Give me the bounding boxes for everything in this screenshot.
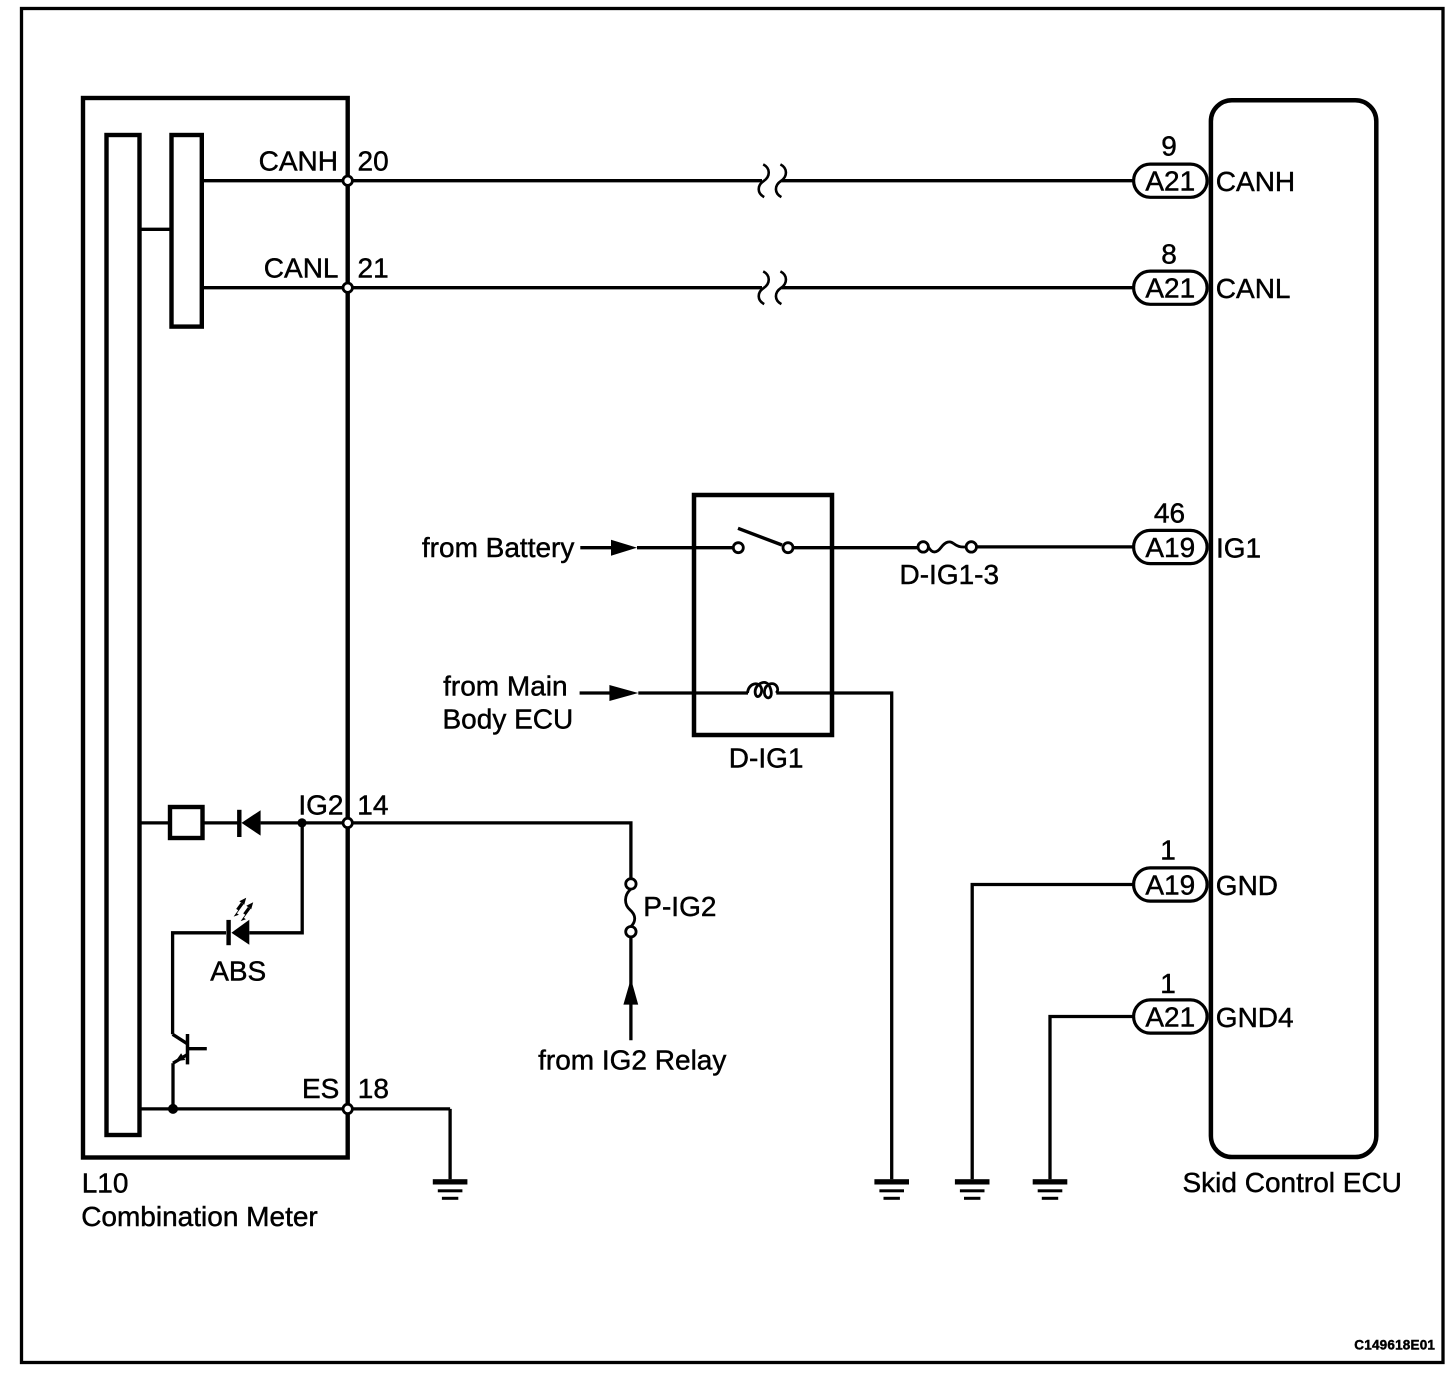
wire battery to relay switch bbox=[637, 546, 733, 549]
svg-text:C149618E01: C149618E01 bbox=[1354, 1337, 1435, 1352]
ABS LED cathode bar bbox=[226, 920, 230, 945]
svg-text:L10: L10 bbox=[82, 1168, 129, 1199]
arrow from Battery bbox=[580, 546, 613, 549]
transistor Q1 base lead bbox=[188, 1047, 207, 1050]
wire link between bars bbox=[140, 228, 172, 231]
connector A21 pin 1 GND4 bbox=[1134, 1000, 1208, 1033]
ground GND bbox=[955, 1179, 990, 1200]
ground GND4 bbox=[1033, 1179, 1068, 1200]
relay coil D-IG1 bbox=[748, 682, 778, 697]
svg-text:from IG2 Relay: from IG2 Relay bbox=[538, 1045, 726, 1076]
diode triangle bbox=[242, 810, 261, 835]
wire ABS LED left lead bbox=[173, 933, 226, 1035]
wire ES bbox=[140, 1107, 451, 1110]
svg-text:GND4: GND4 bbox=[1216, 1002, 1294, 1033]
svg-text:1: 1 bbox=[1160, 835, 1176, 866]
diode cathode bar bbox=[237, 810, 241, 837]
svg-text:ABS: ABS bbox=[210, 955, 266, 986]
svg-text:A21: A21 bbox=[1145, 166, 1195, 197]
junction dot ES bbox=[168, 1104, 178, 1114]
svg-text:A21: A21 bbox=[1145, 273, 1195, 304]
svg-text:Body ECU: Body ECU bbox=[443, 703, 574, 734]
ABS LED light arrows bbox=[234, 898, 254, 921]
svg-text:GND: GND bbox=[1216, 870, 1278, 901]
wire fuse to IG1 bbox=[977, 545, 1134, 548]
arrow from IG2 relay bbox=[623, 979, 638, 1005]
connector A19 pin 1 GND bbox=[1134, 868, 1208, 901]
svg-text:IG1: IG1 bbox=[1216, 532, 1261, 563]
relay switch contact left bbox=[733, 543, 743, 553]
svg-text:D-IG1-3: D-IG1-3 bbox=[900, 559, 1000, 590]
wire lamp to diode bbox=[205, 821, 239, 824]
svg-text:A21: A21 bbox=[1145, 1001, 1195, 1032]
svg-text:A19: A19 bbox=[1145, 869, 1195, 900]
svg-text:Skid Control ECU: Skid Control ECU bbox=[1183, 1167, 1402, 1198]
wire main body ECU to coil bbox=[638, 691, 748, 694]
svg-text:18: 18 bbox=[358, 1073, 389, 1104]
wire CANL right segment bbox=[782, 286, 1134, 289]
wire CANL left segment bbox=[204, 286, 762, 289]
svg-text:21: 21 bbox=[358, 253, 389, 284]
svg-text:8: 8 bbox=[1161, 238, 1177, 269]
connector A21 pin 9 CANH bbox=[1134, 164, 1208, 197]
node CANL pin 21 bbox=[343, 283, 352, 292]
transistor Q1 base bar bbox=[186, 1034, 190, 1064]
node CANH pin 20 bbox=[343, 176, 352, 185]
svg-text:Combination Meter: Combination Meter bbox=[81, 1201, 318, 1232]
wire ABS LED right lead bbox=[249, 823, 302, 933]
transistor Q1 collector bbox=[173, 1034, 188, 1044]
connector A21 pin 8 CANL bbox=[1134, 271, 1208, 304]
svg-text:D-IG1: D-IG1 bbox=[729, 743, 804, 774]
wire GND to ground bbox=[972, 885, 1133, 1180]
svg-text:9: 9 bbox=[1161, 131, 1177, 162]
ABS LED triangle bbox=[231, 920, 249, 945]
wire diode to node bbox=[261, 821, 348, 824]
svg-text:A19: A19 bbox=[1145, 532, 1195, 563]
node IG2 pin 14 bbox=[343, 818, 352, 827]
lamp square bbox=[170, 807, 203, 838]
relay D-IG1 box bbox=[694, 495, 832, 735]
skid control ECU box bbox=[1211, 100, 1376, 1157]
wire coil to ground bbox=[776, 693, 891, 1179]
wire switch to fuse bbox=[793, 546, 918, 549]
wire IG2 bar to lamp bbox=[140, 821, 170, 824]
svg-text:CANL: CANL bbox=[264, 253, 339, 284]
connector bar 1 bbox=[107, 135, 140, 1135]
svg-text:CANL: CANL bbox=[1216, 273, 1291, 304]
svg-text:14: 14 bbox=[357, 790, 388, 821]
node ES pin 18 bbox=[343, 1104, 352, 1113]
wire from IG2 relay bbox=[629, 937, 632, 1040]
svg-text:20: 20 bbox=[358, 146, 389, 177]
wire CANH left segment bbox=[204, 179, 762, 182]
connector bar 2 bbox=[172, 135, 202, 327]
wire break symbol CANL bbox=[759, 271, 786, 304]
wire GND4 to ground bbox=[1050, 1017, 1134, 1180]
combination meter L10 box bbox=[83, 98, 348, 1158]
transistor Q1 emitter bbox=[173, 1055, 187, 1064]
wire emitter to ES bbox=[171, 1063, 174, 1109]
svg-text:CANH: CANH bbox=[1216, 166, 1295, 197]
svg-text:from Main: from Main bbox=[443, 671, 567, 702]
svg-text:P-IG2: P-IG2 bbox=[643, 891, 716, 922]
svg-text:ES: ES bbox=[302, 1073, 339, 1104]
wire CANH right segment bbox=[782, 179, 1134, 182]
relay switch blade bbox=[738, 528, 782, 545]
svg-text:1: 1 bbox=[1160, 968, 1176, 999]
svg-text:CANH: CANH bbox=[259, 146, 338, 177]
arrow from Main Body ECU bbox=[580, 691, 612, 694]
wire break symbol CANH bbox=[759, 164, 786, 197]
wire ES to ground bbox=[448, 1109, 451, 1179]
svg-text:IG2: IG2 bbox=[298, 790, 343, 821]
connector A19 pin 46 IG1 bbox=[1134, 530, 1208, 563]
junction dot IG2 bbox=[297, 818, 306, 827]
fuse P-IG2 bbox=[626, 879, 636, 889]
svg-text:from Battery: from Battery bbox=[422, 532, 574, 563]
ground ES bbox=[433, 1179, 468, 1200]
wire IG2 to P-IG2 fuse bbox=[352, 823, 631, 879]
relay switch contact right bbox=[783, 543, 793, 553]
ground relay coil bbox=[874, 1179, 909, 1200]
svg-text:46: 46 bbox=[1154, 498, 1185, 529]
fuse D-IG1-3 bbox=[918, 542, 928, 552]
